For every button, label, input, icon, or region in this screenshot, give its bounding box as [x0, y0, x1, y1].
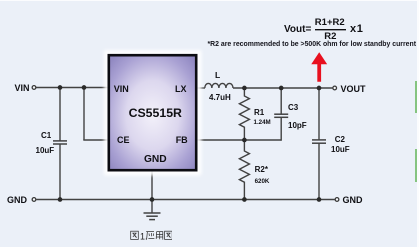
node junction CE-VIN: [82, 85, 87, 90]
capacitor C3 branch lower: [280, 117, 282, 140]
capacitor C3: [274, 114, 288, 117]
IC white halo: [104, 50, 202, 176]
green page-edge mark upper: [415, 81, 417, 113]
capacitor C3 branch upper: [280, 88, 282, 114]
IC CS5515R body: [109, 55, 196, 170]
pin label GND: [144, 155, 167, 165]
green page-edge mark lower: [415, 149, 417, 182]
node C2 top: [317, 86, 322, 91]
formula Vout=: [284, 25, 311, 35]
value 4.7uH (L): [209, 94, 231, 102]
capacitor C1: [53, 141, 67, 144]
node A (L / R1 top): [242, 86, 247, 91]
capacitor C2: [312, 140, 326, 143]
label C1: [41, 132, 51, 140]
wire CE branch horizontal: [83, 139, 110, 141]
caption 图1.应用图: [130, 230, 172, 241]
wire C1 branch upper: [59, 88, 61, 141]
terminal VOUT: [333, 86, 337, 90]
label L: [215, 71, 220, 80]
pin label VIN: [114, 85, 129, 94]
wire VIN rail: [36, 87, 110, 89]
label VOUT terminal: [341, 85, 366, 94]
resistor R1: [239, 88, 249, 140]
red arrow to formula: [312, 53, 327, 82]
ground earth symbol: [144, 200, 161, 220]
formula denominator R2: [324, 32, 336, 42]
formula numerator R1+R2: [315, 18, 345, 28]
value 10pF (C3): [288, 122, 307, 130]
value 10uF (C2): [331, 146, 350, 154]
IC name CS5515R: [129, 107, 182, 119]
note about R2: [208, 42, 417, 49]
label GND terminal right: [343, 196, 363, 205]
wire CE branch vertical: [83, 88, 85, 141]
white right page strip: [417, 0, 419, 247]
pin label FB: [176, 136, 188, 145]
wire LX to inductor: [195, 87, 205, 89]
wire VOUT rail: [233, 87, 332, 89]
node R2 bottom: [242, 197, 247, 202]
value 10uF (C1): [36, 147, 55, 155]
node FB junction: [242, 138, 247, 143]
capacitor C2 branch upper: [318, 88, 320, 140]
formula x1: [350, 24, 363, 35]
node C1 bottom: [58, 197, 63, 202]
terminal VIN: [32, 86, 36, 90]
node IC GND bottom: [150, 197, 155, 202]
label R1: [254, 109, 264, 117]
wire IC GND pin to rail: [151, 169, 153, 200]
label C3: [288, 104, 298, 112]
label C2: [335, 136, 345, 144]
formula fraction bar: [315, 29, 346, 31]
resistor R2: [239, 140, 249, 200]
value 620K (R2): [255, 179, 270, 185]
node C2 bottom: [317, 197, 322, 202]
node C3 top: [279, 86, 284, 91]
inductor L 4.7uH: [205, 83, 233, 88]
value 1.24M (R1): [254, 120, 271, 126]
pin label CE: [117, 136, 130, 145]
pin label LX: [175, 85, 187, 94]
label VIN terminal: [14, 84, 29, 93]
capacitor C2 branch lower: [318, 143, 320, 199]
wire FB rail: [195, 139, 281, 141]
label R2*: [255, 166, 268, 174]
terminal GND left: [32, 198, 36, 202]
node junction C1-VIN: [58, 85, 63, 90]
label GND terminal left: [7, 196, 27, 205]
white top edge: [0, 0, 419, 1]
terminal GND right: [335, 198, 339, 202]
wire GND rail: [37, 199, 335, 201]
wire C1 branch lower: [59, 144, 61, 199]
